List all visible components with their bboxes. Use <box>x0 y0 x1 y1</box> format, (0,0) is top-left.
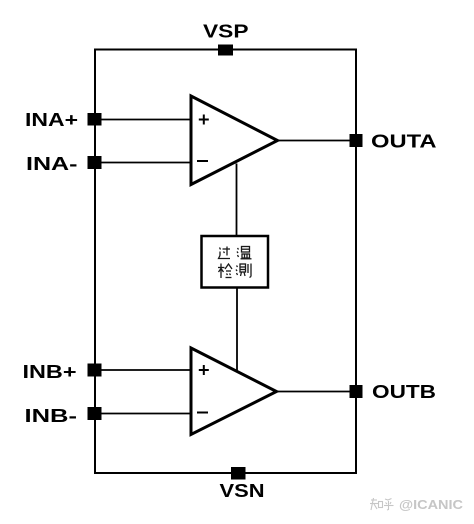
svg-text:INB-: INB- <box>25 406 78 426</box>
svg-text:VSN: VSN <box>220 481 265 501</box>
svg-text:INA+: INA+ <box>25 110 78 130</box>
svg-text:INA-: INA- <box>26 154 78 174</box>
svg-text:VSP: VSP <box>203 22 249 42</box>
svg-text:@ICANIC: @ICANIC <box>399 497 464 512</box>
svg-text:INB+: INB+ <box>23 362 77 382</box>
svg-text:OUTA: OUTA <box>371 132 437 152</box>
svg-text:OUTB: OUTB <box>372 382 436 402</box>
